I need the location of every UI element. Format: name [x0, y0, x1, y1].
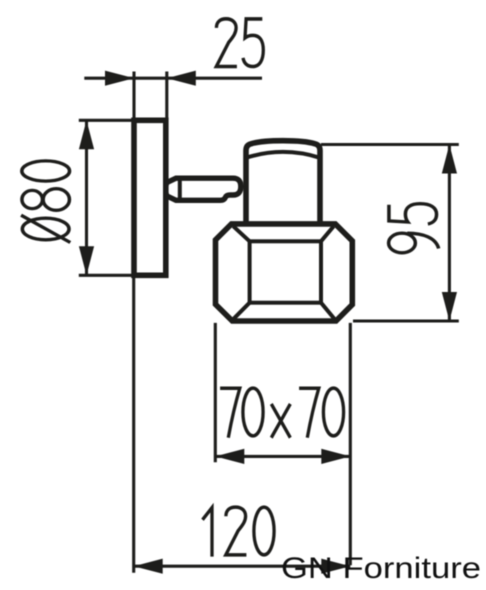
head corner edge TR	[321, 226, 334, 241]
lamp socket	[246, 141, 320, 224]
head corner edge BR	[321, 303, 334, 319]
arrow 25 left	[105, 71, 134, 86]
dim 70x70: extension lines	[215, 323, 350, 565]
arrow O80 up	[79, 120, 94, 149]
lamp head outer octagon	[216, 224, 353, 321]
head corner edge TL	[233, 226, 249, 241]
arm seam	[178, 178, 182, 200]
svg-text:GN Forniture: GN Forniture	[281, 552, 481, 585]
dim 95: extension lines	[321, 145, 459, 322]
dim 120: extension line	[132, 278, 135, 573]
mounting arm	[166, 178, 241, 200]
dim 70x70: dimension line	[215, 455, 350, 458]
wall plate	[134, 120, 166, 275]
label 25	[216, 19, 263, 67]
dim 25: dimension line	[84, 77, 262, 80]
arrow 120 left	[134, 559, 163, 574]
label 120	[203, 507, 275, 557]
arrow 70x70 right	[321, 449, 350, 464]
dim O80: extension lines	[79, 120, 134, 275]
dim 25: extension lines	[134, 72, 167, 123]
label 70x70	[220, 388, 344, 438]
head corner edge BL	[234, 303, 250, 319]
arrow 120 right	[321, 559, 350, 574]
arrow O80 down	[79, 246, 94, 275]
socket cap seam	[246, 152, 320, 158]
arrow 70x70 left	[215, 449, 244, 464]
lamp head inner face	[250, 241, 321, 302]
arrow 95 up	[442, 145, 457, 174]
dim 95: dimension line	[448, 145, 451, 322]
label 95 (rotated)	[389, 204, 439, 253]
arrow 25 right	[167, 71, 196, 86]
arrow 95 down	[442, 292, 457, 321]
dim 120: dimension line	[134, 565, 351, 568]
label O80 (rotated)	[21, 161, 70, 243]
dim O80: dimension line	[85, 120, 88, 275]
